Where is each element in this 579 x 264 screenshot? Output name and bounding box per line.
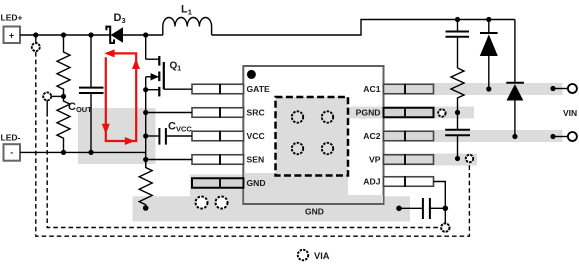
wire: L1 to top right rail xyxy=(212,20,515,36)
IC bottom-right gray strip xyxy=(348,195,383,203)
node Rsense gnd xyxy=(143,205,149,211)
pin GATE xyxy=(192,84,244,95)
pin VP xyxy=(384,154,434,165)
svg-text:GND: GND xyxy=(247,178,266,188)
pin SRC xyxy=(192,107,244,118)
node COUT top xyxy=(88,32,93,37)
wire: source rail down xyxy=(145,77,147,168)
svg-text:AC2: AC2 xyxy=(363,131,380,141)
node SEN xyxy=(143,157,148,162)
PGND copper band xyxy=(348,107,474,119)
wire: Q1 gate to GATE pin xyxy=(164,88,192,90)
pin PGND xyxy=(384,107,434,118)
wire: LED+ to D3 xyxy=(20,34,110,36)
svg-text:GND: GND xyxy=(305,207,324,217)
svg-text:PGND: PGND xyxy=(356,108,381,118)
node R divider bottom xyxy=(61,150,66,155)
node VP xyxy=(455,156,460,161)
svg-text:+: + xyxy=(9,31,14,41)
terminal VIN AC2 xyxy=(550,132,577,141)
thermal pad dashed outline xyxy=(276,97,349,176)
capacitor CVCC xyxy=(146,128,192,145)
node cap top xyxy=(455,17,460,22)
via VP xyxy=(466,155,473,162)
pin labels xyxy=(247,84,381,188)
AC1 copper band xyxy=(434,83,563,95)
terminal VIN AC1 xyxy=(550,84,577,93)
svg-text:-: - xyxy=(10,148,13,158)
pin AC2 xyxy=(384,131,434,142)
copper pour region around SRC loop xyxy=(78,108,156,164)
IC lower-left gray xyxy=(245,173,348,203)
capacitor COUT xyxy=(79,35,104,152)
wire: LED- to rail xyxy=(20,151,146,153)
svg-text:LED-: LED- xyxy=(1,133,21,143)
terminal LED- xyxy=(1,133,21,161)
via bottom plane 1 xyxy=(196,197,208,209)
node ADJ cap gnd xyxy=(396,206,402,212)
wire: ADJ pin to cap xyxy=(434,182,446,209)
AC2 copper band xyxy=(434,130,563,142)
pin SEN xyxy=(192,154,244,165)
svg-text:AC1: AC1 xyxy=(363,84,380,94)
pin ADJ xyxy=(384,176,434,187)
legend via xyxy=(298,250,308,260)
capacitor input top right xyxy=(446,20,470,69)
transistor Q1 xyxy=(146,35,164,96)
svg-text:SEN: SEN xyxy=(247,155,265,165)
diode D1 xyxy=(480,20,498,90)
terminal LED+ xyxy=(1,13,23,44)
capacitor PGND-VP xyxy=(445,113,470,159)
svg-text:VIN: VIN xyxy=(563,108,577,118)
pad via 3 xyxy=(292,143,303,154)
via at LED- sense xyxy=(43,92,51,100)
pin GND xyxy=(192,178,244,189)
wire: D3 to L1 xyxy=(123,34,163,36)
pin VCC xyxy=(192,131,244,142)
node Q1 source xyxy=(143,87,148,92)
pin 1 marker xyxy=(247,70,256,79)
VP copper band xyxy=(384,154,478,166)
resistor R-top xyxy=(57,35,70,96)
node R divider mid xyxy=(61,94,66,99)
pin AC1 xyxy=(384,84,434,95)
via PGND xyxy=(438,109,445,116)
wire: stub via to divider xyxy=(51,95,64,97)
thermal pad gray xyxy=(276,97,349,176)
node COUT bottom xyxy=(88,150,93,155)
wire: SEN pin xyxy=(146,159,192,161)
node R divider top xyxy=(61,32,66,37)
svg-text:GATE: GATE xyxy=(247,84,271,94)
wire: inner dashed return path (other layer) xyxy=(47,112,440,228)
PGND strip inside IC xyxy=(348,107,383,119)
node switch (drain) xyxy=(143,32,148,37)
ground plane bottom xyxy=(133,196,411,221)
via ADJ xyxy=(441,223,449,231)
node PGND xyxy=(455,110,460,115)
node ADJ corner xyxy=(443,206,449,212)
svg-text:LED+: LED+ xyxy=(1,13,23,23)
svg-text:VP: VP xyxy=(369,155,381,165)
pad via 1 xyxy=(292,111,303,122)
node D1 anode xyxy=(486,86,491,91)
pad via 4 xyxy=(322,143,333,154)
op-amp U1 : LED driver IC body xyxy=(243,66,383,204)
wire: SRC pin xyxy=(146,112,192,114)
wire: stub to via xyxy=(35,35,37,43)
gnd pin strip left xyxy=(190,175,244,201)
svg-text:VCC: VCC xyxy=(247,131,265,141)
pad via 2 xyxy=(322,111,333,122)
svg-text:ADJ: ADJ xyxy=(363,177,380,187)
wire: to ADJ via xyxy=(444,208,446,223)
capacitor ADJ xyxy=(399,198,445,219)
node LED+ junction xyxy=(33,32,38,37)
resistor R-bottom xyxy=(57,96,70,152)
diode D3 schottky xyxy=(106,12,125,43)
node CVCC left xyxy=(143,133,148,138)
red current loop xyxy=(106,53,136,141)
svg-text:VIA: VIA xyxy=(314,251,330,261)
node D2 anode xyxy=(512,134,517,139)
via bottom plane 2 xyxy=(216,197,228,209)
wire: via stub down xyxy=(46,100,48,112)
via at LED+ xyxy=(32,43,40,51)
resistor top right xyxy=(451,68,464,113)
node D1 top xyxy=(486,17,491,22)
resistor Rsense xyxy=(139,160,152,209)
node SRC xyxy=(143,110,148,115)
inductor L1 xyxy=(163,18,212,36)
wire: outer dashed return path (other layer) xyxy=(36,52,470,236)
svg-text:SRC: SRC xyxy=(247,108,265,118)
diode D2 xyxy=(506,20,524,137)
